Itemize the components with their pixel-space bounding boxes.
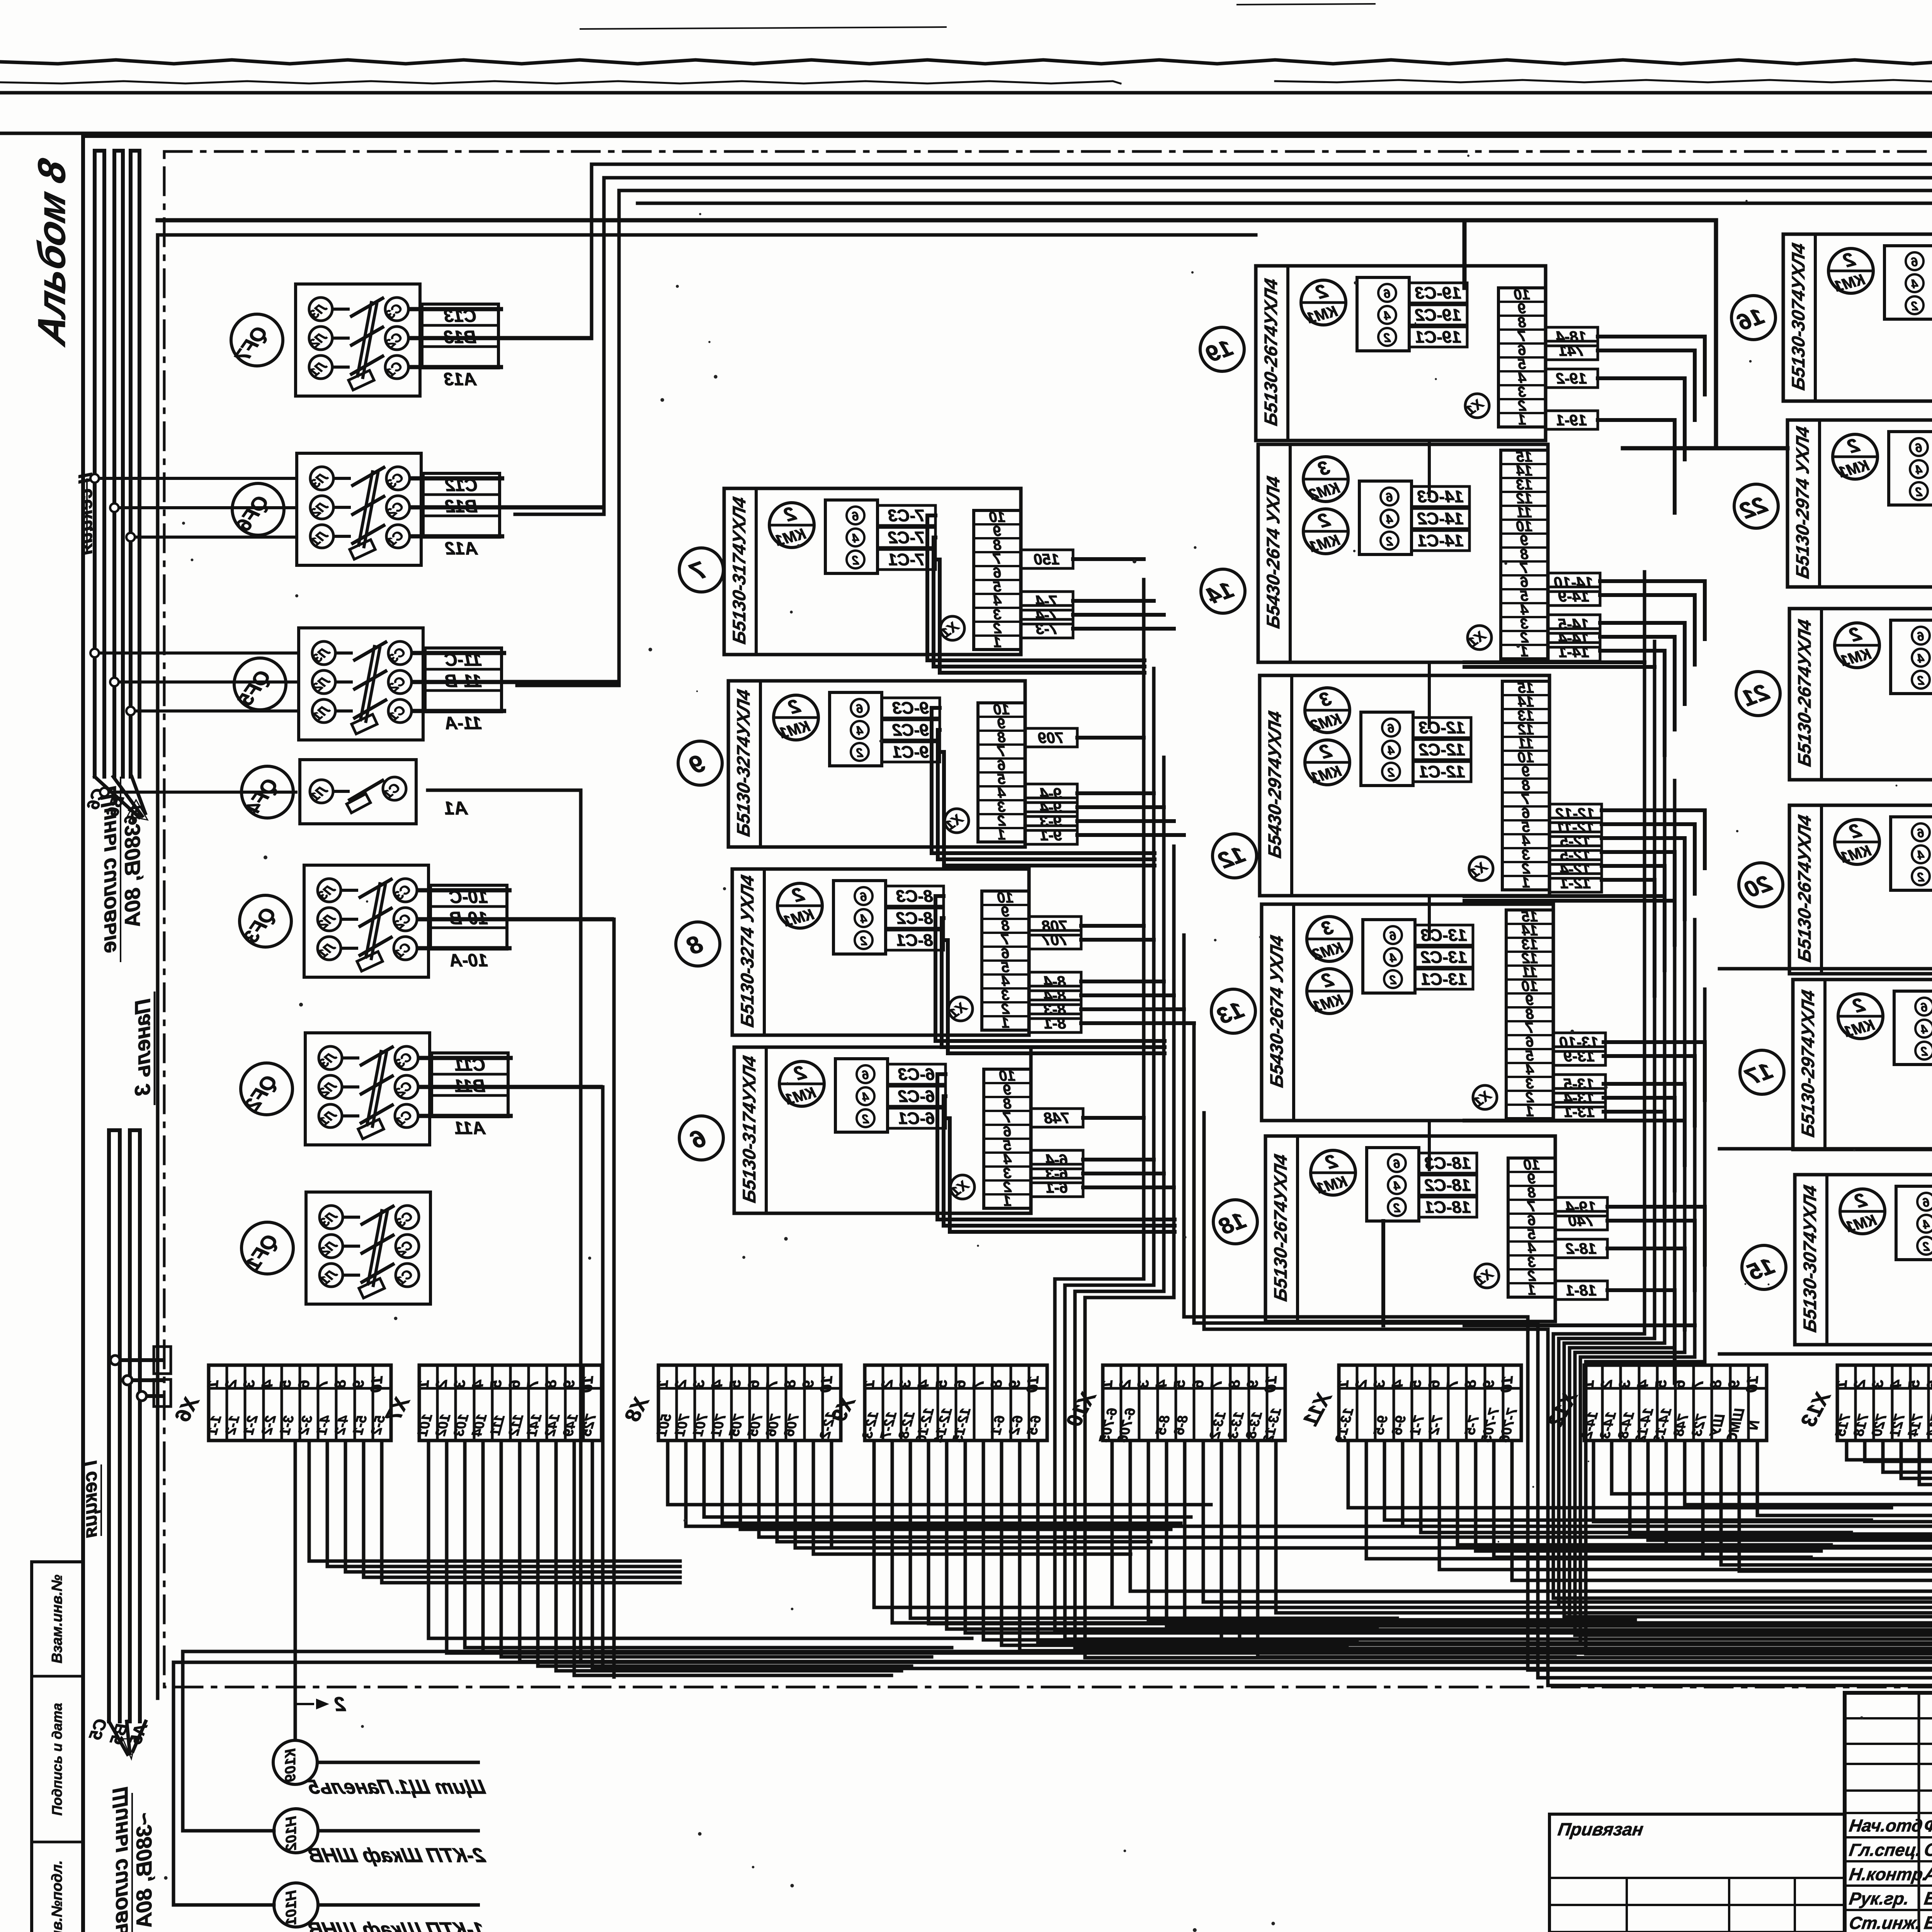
svg-text:6: 6 — [1917, 629, 1924, 643]
svg-text:2: 2 — [1598, 1379, 1616, 1389]
position circle 14 — [1201, 569, 1245, 613]
svg-text:6: 6 — [1425, 1379, 1443, 1389]
label Шины силовые ~380В 80А (upper) — [96, 777, 145, 962]
svg-text:5: 5 — [1407, 1379, 1425, 1389]
svg-text:19-С3: 19-С3 — [1415, 284, 1461, 303]
svg-text:10-А: 10-А — [449, 950, 488, 970]
svg-text:4: 4 — [1393, 1179, 1401, 1193]
svg-text:9: 9 — [560, 1379, 578, 1389]
bundle B verticals (between middle and right columns) — [1553, 572, 1932, 1654]
svg-text:4: 4 — [1389, 1379, 1406, 1389]
svg-text:Шины силовые: Шины силовые — [108, 1787, 132, 1932]
svg-text:13-9: 13-9 — [1563, 1048, 1595, 1065]
wire QF2 output down — [522, 1087, 603, 1669]
terminal strip Х11 — [1299, 1365, 1521, 1444]
svg-text:12-С2: 12-С2 — [1419, 740, 1465, 759]
wire under block 12 — [1464, 896, 1675, 901]
svg-text:Б5130-3074УХЛ4: Б5130-3074УХЛ4 — [1788, 241, 1809, 392]
svg-text:4: 4 — [852, 531, 859, 545]
wire QF5 feed to top loop — [517, 190, 1932, 685]
svg-text:4: 4 — [860, 912, 867, 926]
svg-text:9: 9 — [1006, 1379, 1024, 1389]
svg-text:Б5130-2974 УХЛ4: Б5130-2974 УХЛ4 — [1793, 425, 1813, 580]
svg-text:1: 1 — [1098, 1379, 1116, 1389]
terminal strip Х6 — [171, 1365, 391, 1440]
svg-text:10: 10 — [1498, 1375, 1516, 1393]
svg-text:Инв.№подл.: Инв.№подл. — [49, 1860, 65, 1932]
svg-text:8-С1: 8-С1 — [896, 931, 933, 950]
svg-text:Рук.гр.: Рук.гр. — [1848, 1889, 1910, 1908]
svg-text:9: 9 — [799, 1379, 817, 1389]
scan noise top edge — [0, 4, 1932, 83]
svg-text:4: 4 — [1388, 743, 1395, 757]
svg-text:4: 4 — [862, 1090, 869, 1104]
svg-text:Шины силовые: Шины силовые — [96, 786, 121, 953]
svg-text:1: 1 — [204, 1379, 222, 1389]
svg-text:4: 4 — [1386, 512, 1393, 526]
svg-text:4: 4 — [1921, 1022, 1928, 1036]
svg-text:8: 8 — [1707, 1379, 1725, 1389]
svg-text:14-1: 14-1 — [1558, 644, 1589, 661]
position circle 8 — [676, 922, 720, 966]
contactor block 17 (Б5130-2974УХЛ4) — [1793, 980, 1932, 1150]
left margin table (Инв.№подл / Подпись и дата / Взам.инв.№) — [32, 1562, 83, 1932]
wire left vertical feed H101 — [173, 1662, 274, 1905]
svg-text:4: 4 — [1634, 1379, 1652, 1389]
svg-text:2: 2 — [1917, 870, 1925, 884]
svg-text:8-С2: 8-С2 — [896, 909, 933, 928]
svg-text:10: 10 — [1743, 1375, 1762, 1393]
wire under block 13 — [1464, 1119, 1685, 1122]
svg-text:19-С1: 19-С1 — [1415, 328, 1461, 347]
svg-text:18-С3: 18-С3 — [1425, 1154, 1471, 1173]
contactor block 13 (Б5430-2674 УХЛ4) — [1262, 904, 1605, 1121]
svg-text:7-С2: 7-С2 — [888, 528, 925, 547]
label I секция — [79, 1460, 101, 1538]
svg-text:2: 2 — [1921, 1044, 1928, 1058]
svg-text:4: 4 — [1887, 1379, 1905, 1389]
svg-text:6-1: 6-1 — [1046, 1179, 1068, 1196]
svg-text:6: 6 — [852, 509, 859, 523]
svg-text:8: 8 — [332, 1379, 349, 1389]
svg-text:18-С1: 18-С1 — [1425, 1198, 1471, 1217]
svg-text:19-С2: 19-С2 — [1415, 306, 1461, 325]
svg-text:Взам.инв.№: Взам.инв.№ — [49, 1575, 65, 1663]
svg-text:19-2: 19-2 — [1556, 370, 1587, 387]
wire to K18-1 — [1719, 1352, 1932, 1356]
svg-text:18-С2: 18-С2 — [1425, 1176, 1471, 1195]
svg-text:8: 8 — [1226, 1379, 1243, 1389]
svg-text:5: 5 — [933, 1379, 951, 1389]
svg-text:6: 6 — [860, 890, 867, 904]
svg-text:9-С2: 9-С2 — [892, 721, 929, 740]
svg-text:6: 6 — [1917, 826, 1924, 840]
svg-text:14-С3: 14-С3 — [1417, 487, 1464, 506]
terminal strip Х9 — [827, 1365, 1047, 1444]
svg-text:1: 1 — [1833, 1379, 1850, 1389]
svg-text:Б5430-2674 УХЛ4: Б5430-2674 УХЛ4 — [1267, 934, 1287, 1089]
svg-text:2: 2 — [878, 1379, 896, 1389]
contactor block 7 (Б5130-3174УХЛ4) — [724, 488, 1073, 655]
svg-text:10: 10 — [1024, 1375, 1042, 1393]
wire left vertical feed H102 — [183, 1651, 274, 1831]
svg-text:Ст.инж.: Ст.инж. — [1848, 1913, 1922, 1932]
label Панель 3 — [130, 992, 155, 1105]
svg-text:1: 1 — [1527, 1282, 1536, 1298]
position circle 17 — [1740, 1050, 1784, 1094]
svg-text:2: 2 — [856, 746, 864, 760]
breaker QF4 (single pole) — [241, 760, 468, 824]
svg-text:9-С3: 9-С3 — [892, 699, 929, 718]
position circle 20 — [1739, 863, 1783, 907]
svg-text:14-С1: 14-С1 — [1417, 531, 1464, 550]
svg-text:8: 8 — [1462, 1379, 1480, 1389]
contactor block 18 (Б5130-2674УХЛ4) — [1265, 1136, 1607, 1321]
svg-text:4: 4 — [1911, 277, 1918, 291]
svg-text:7-С1: 7-С1 — [888, 550, 925, 569]
wire left vertical to lamp H102 — [156, 235, 160, 1698]
position circle 21 — [1736, 672, 1780, 716]
svg-text:Б5130-2674УХЛ4: Б5130-2674УХЛ4 — [1261, 277, 1281, 427]
contactor block 14 (Б5430-2674 УХЛ4) — [1258, 444, 1600, 662]
svg-text:6: 6 — [1923, 1196, 1930, 1209]
svg-text:6: 6 — [1384, 287, 1391, 301]
position circle 9 — [678, 741, 722, 785]
svg-text:6: 6 — [856, 702, 863, 716]
contactor block 6 (Б5130-3174УХЛ4) — [734, 1047, 1083, 1213]
svg-text:13-1: 13-1 — [1564, 1104, 1595, 1121]
svg-text:2: 2 — [860, 934, 867, 948]
svg-text:9: 9 — [1480, 1379, 1498, 1389]
terminal strip Х13 — [1797, 1365, 1932, 1440]
svg-text:3: 3 — [1371, 1379, 1388, 1389]
svg-text:748: 748 — [1044, 1110, 1070, 1127]
svg-text:~380В, 80А: ~380В, 80А — [120, 811, 145, 927]
terminal strip Х7 — [381, 1365, 602, 1440]
svg-text:4: 4 — [259, 1379, 276, 1389]
svg-text:12-С3: 12-С3 — [1419, 718, 1465, 737]
svg-text:Б5130-3074УХЛ4: Б5130-3074УХЛ4 — [1800, 1184, 1820, 1334]
contactor block 20 (Б5130-2674УХЛ4) — [1789, 805, 1932, 974]
svg-text:2: 2 — [1116, 1379, 1134, 1389]
svg-text:9: 9 — [1725, 1379, 1743, 1389]
svg-text:Б5430-2674 УХЛ4: Б5430-2674 УХЛ4 — [1263, 474, 1284, 630]
svg-text:Н.контр.: Н.контр. — [1848, 1864, 1929, 1884]
svg-text:8: 8 — [781, 1379, 799, 1389]
svg-text:2: 2 — [1386, 534, 1393, 548]
svg-text:18-1: 18-1 — [1566, 1282, 1597, 1299]
svg-text:5: 5 — [487, 1379, 505, 1389]
svg-text:2: 2 — [334, 1693, 346, 1716]
terminal strip Х8 — [621, 1365, 841, 1440]
svg-text:3: 3 — [240, 1379, 258, 1389]
svg-text:4: 4 — [915, 1379, 932, 1389]
svg-text:4: 4 — [469, 1379, 487, 1389]
position circle 13 — [1211, 989, 1255, 1033]
svg-text:Привязан: Привязан — [1557, 1819, 1645, 1839]
svg-text:741: 741 — [1559, 342, 1585, 359]
svg-text:Б5130-2674УХЛ4: Б5130-2674УХЛ4 — [1794, 618, 1815, 768]
svg-text:3: 3 — [1869, 1379, 1887, 1389]
svg-text:Б5130-2974УХЛ4: Б5130-2974УХЛ4 — [1798, 988, 1818, 1139]
svg-text:5: 5 — [1905, 1379, 1923, 1389]
svg-text:Б5130-3274 УХЛ4: Б5130-3274 УХЛ4 — [737, 873, 758, 1029]
side label wires middle column — [1598, 337, 1705, 1383]
svg-text:709: 709 — [1038, 730, 1064, 747]
svg-text:12-С1: 12-С1 — [1419, 762, 1465, 781]
svg-text:6: 6 — [1911, 255, 1918, 269]
svg-text:2: 2 — [1915, 485, 1923, 499]
svg-text:Б5130-2674УХЛ4: Б5130-2674УХЛ4 — [1270, 1153, 1291, 1303]
svg-text:2: 2 — [1911, 299, 1918, 313]
svg-text:4: 4 — [1915, 463, 1923, 477]
svg-text:9: 9 — [350, 1379, 367, 1389]
contactor block 21 (Б5130-2674УХЛ4) — [1789, 609, 1932, 780]
wire QF3 output down — [521, 919, 614, 1677]
svg-text:6-С2: 6-С2 — [898, 1087, 935, 1106]
bus bars section II (Шины силовые ~380В, 80А) — [95, 151, 139, 777]
svg-text:Б5130-3174УХЛ4: Б5130-3174УХЛ4 — [729, 495, 750, 646]
svg-text:3: 3 — [690, 1379, 708, 1389]
svg-text:6: 6 — [1386, 490, 1393, 504]
svg-text:6: 6 — [1915, 441, 1922, 455]
svg-text:1: 1 — [654, 1379, 672, 1389]
svg-text:1: 1 — [1526, 1104, 1534, 1120]
wire QF4 output down — [428, 790, 581, 1662]
svg-text:1: 1 — [860, 1379, 878, 1389]
position circle 15 — [1742, 1245, 1786, 1289]
position circle 12 — [1213, 834, 1257, 878]
pin feed verticals middle column — [1428, 440, 1431, 1170]
svg-text:6: 6 — [745, 1379, 763, 1389]
wire top feed into block 19 — [158, 220, 1716, 448]
svg-text:11-А: 11-А — [445, 713, 482, 733]
contactor block 15 (Б5130-3074УХЛ4) — [1795, 1175, 1932, 1345]
svg-text:4: 4 — [1153, 1379, 1170, 1389]
wire block19 to block16 — [1623, 446, 1787, 451]
terminal strip Х12 — [1544, 1365, 1767, 1444]
svg-text:Нач.отд: Нач.отд — [1848, 1816, 1924, 1835]
bus taps to breakers — [90, 474, 298, 1401]
svg-text:9: 9 — [1244, 1379, 1262, 1389]
svg-text:Щит Щ1.Панель5: Щит Щ1.Панель5 — [305, 1776, 487, 1798]
svg-text:А1: А1 — [444, 798, 468, 819]
svg-text:Б5130-3174УХЛ4: Б5130-3174УХЛ4 — [739, 1054, 760, 1204]
svg-text:4: 4 — [1917, 651, 1925, 665]
svg-text:6: 6 — [1921, 1000, 1928, 1014]
position circle 16 — [1731, 296, 1776, 340]
svg-text:Б5130-2674УХЛ4: Б5130-2674УХЛ4 — [1794, 813, 1815, 964]
svg-text:2: 2 — [1384, 331, 1391, 345]
svg-text:1: 1 — [1001, 1015, 1009, 1031]
svg-text:Б5430-2974УХЛ4: Б5430-2974УХЛ4 — [1265, 709, 1285, 860]
svg-text:6: 6 — [1393, 1157, 1400, 1171]
svg-text:2: 2 — [1923, 1240, 1930, 1253]
svg-text:2: 2 — [1352, 1379, 1370, 1389]
breaker QF3 — [240, 865, 614, 977]
pin bundle wires left column — [927, 515, 1145, 673]
position circle 19 — [1200, 327, 1244, 371]
svg-text:1: 1 — [1003, 1193, 1011, 1209]
wire to K15-1 — [1719, 1147, 1932, 1151]
svg-text:5: 5 — [1171, 1379, 1189, 1389]
svg-text:6: 6 — [1389, 929, 1396, 943]
svg-text:13-С2: 13-С2 — [1421, 948, 1467, 967]
wire QF6 feed to top loop — [515, 178, 1932, 514]
header strip line — [0, 132, 1932, 135]
svg-text:8: 8 — [988, 1379, 1005, 1389]
svg-text:Альбом 8: Альбом 8 — [30, 155, 73, 350]
svg-text:К109: К109 — [282, 1748, 299, 1782]
breaker QF6 — [232, 453, 604, 565]
svg-text:13-С1: 13-С1 — [1421, 970, 1467, 989]
wire top loop 4 — [638, 202, 1932, 205]
svg-text:2-КТП Шкаф ШНВ: 2-КТП Шкаф ШНВ — [306, 1844, 487, 1867]
svg-text:Панель 3: Панель 3 — [130, 998, 155, 1096]
svg-text:Н101: Н101 — [283, 1890, 299, 1925]
svg-text:Подпись и дата: Подпись и дата — [49, 1703, 65, 1816]
svg-text:3: 3 — [1134, 1379, 1152, 1389]
breaker QF5 — [234, 628, 619, 740]
svg-text:1: 1 — [1334, 1379, 1352, 1389]
cabinet Щ1 boundary (dash-dot) — [164, 151, 1932, 1687]
svg-text:1: 1 — [1518, 412, 1526, 428]
contactor block 22 (Б5130-2974УХЛ4) — [1787, 420, 1932, 587]
position circle 22 — [1734, 484, 1778, 528]
svg-text:II секция: II секция — [75, 473, 96, 556]
svg-text:А12: А12 — [445, 538, 478, 558]
svg-text:4: 4 — [856, 724, 864, 738]
svg-text:10: 10 — [817, 1375, 836, 1393]
svg-text:1: 1 — [1520, 644, 1528, 660]
svg-text:2: 2 — [1389, 973, 1397, 987]
Альбом 8 handwritten label — [30, 155, 73, 350]
svg-text:I секция: I секция — [79, 1460, 101, 1538]
svg-text:7-3: 7-3 — [1036, 621, 1058, 638]
wire QF7 feed to top loop — [514, 164, 1932, 338]
svg-text:6: 6 — [862, 1068, 869, 1082]
label Шины силовые ~380В 80А (lower) — [108, 1787, 156, 1932]
contactor block 16 (Б5130-3074УХЛ4) — [1783, 234, 1932, 401]
bundle A verticals (between left and middle columns) — [1055, 580, 1932, 1685]
breaker QF7 — [231, 284, 592, 396]
breaker QF1 — [241, 1192, 430, 1304]
svg-text:2: 2 — [1851, 1379, 1869, 1389]
svg-text:3: 3 — [1616, 1379, 1634, 1389]
svg-text:Гл.спец.: Гл.спец. — [1848, 1840, 1923, 1860]
svg-text:4: 4 — [1389, 951, 1397, 965]
contactor block 8 (Б5130-3274УХЛ4) — [732, 869, 1081, 1035]
svg-text:8-С3: 8-С3 — [896, 887, 933, 906]
svg-text:2: 2 — [433, 1379, 451, 1389]
contactor block 19 (Б5130-2674УХЛ4) — [1256, 266, 1598, 440]
svg-text:2: 2 — [1388, 765, 1395, 779]
svg-text:1: 1 — [1580, 1379, 1597, 1389]
svg-text:10: 10 — [1262, 1375, 1280, 1393]
connector circle H101 (1-КТП Шкаф ШНВ) — [274, 1883, 487, 1932]
svg-text:4: 4 — [1923, 1218, 1930, 1231]
svg-text:4: 4 — [1384, 309, 1391, 323]
small connector boxes on enclosure left edge — [154, 1347, 171, 1406]
svg-text:9-С1: 9-С1 — [892, 743, 929, 762]
svg-text:1-КТП Шкаф ШНВ: 1-КТП Шкаф ШНВ — [306, 1918, 487, 1932]
svg-text:1: 1 — [1522, 875, 1530, 891]
sheet top border line — [0, 91, 1932, 95]
svg-text:6-С3: 6-С3 — [898, 1065, 935, 1084]
svg-text:6: 6 — [295, 1379, 313, 1389]
svg-text:6-С1: 6-С1 — [898, 1109, 935, 1128]
svg-text:Б5130-3274УХЛ4: Б5130-3274УХЛ4 — [733, 688, 754, 838]
svg-text:4: 4 — [1917, 848, 1925, 862]
position circle 18 — [1213, 1200, 1257, 1244]
annex table Привязан — [1549, 1814, 1845, 1932]
svg-text:8-1: 8-1 — [1044, 1015, 1066, 1032]
svg-text:2: 2 — [1393, 1201, 1401, 1215]
svg-text:5: 5 — [1652, 1379, 1670, 1389]
wire under block 18 — [1383, 1221, 1695, 1325]
position circle 6 — [679, 1116, 723, 1160]
wire under block 14 — [1464, 662, 1655, 667]
svg-text:1: 1 — [993, 634, 1001, 651]
wire to K17-1 — [1719, 967, 1932, 971]
position circle 7 — [679, 548, 723, 592]
bus arrow С5 В5 А5 — [86, 1716, 151, 1759]
svg-text:1: 1 — [415, 1379, 432, 1389]
svg-text:707: 707 — [1041, 932, 1068, 949]
svg-text:5: 5 — [726, 1379, 744, 1389]
svg-text:6: 6 — [1388, 721, 1395, 735]
svg-text:14-С2: 14-С2 — [1417, 509, 1464, 528]
svg-text:10: 10 — [578, 1375, 597, 1393]
svg-text:3: 3 — [896, 1379, 914, 1389]
svg-text:740: 740 — [1568, 1213, 1594, 1230]
svg-text:~380В, 80А: ~380В, 80А — [132, 1812, 156, 1928]
breaker QF2 — [241, 1033, 603, 1145]
bus arrow С6 В6 А6 — [83, 777, 148, 828]
title block — [1845, 1693, 1932, 1932]
svg-text:150: 150 — [1034, 551, 1060, 568]
svg-text:Н102: Н102 — [283, 1816, 299, 1851]
svg-text:5: 5 — [277, 1379, 294, 1389]
svg-text:2: 2 — [852, 553, 859, 567]
svg-text:2: 2 — [672, 1379, 690, 1389]
svg-text:6: 6 — [506, 1379, 524, 1389]
svg-text:1: 1 — [997, 827, 1005, 843]
long bottom wires from left risers — [173, 1651, 1932, 1662]
svg-text:9-1: 9-1 — [1040, 827, 1062, 844]
svg-text:3: 3 — [451, 1379, 469, 1389]
terminal strip Х10 — [1062, 1365, 1285, 1444]
svg-text:12-1: 12-1 — [1560, 875, 1591, 892]
svg-text:2: 2 — [1917, 673, 1925, 687]
svg-text:2: 2 — [862, 1112, 869, 1126]
contactor block 12 (Б5430-2974УХЛ4) — [1260, 675, 1602, 896]
wire left riser y608 — [158, 233, 1256, 237]
svg-text:6: 6 — [1189, 1379, 1207, 1389]
contactor block 9 (Б5130-3274УХЛ4) — [728, 681, 1077, 847]
svg-text:2: 2 — [222, 1379, 240, 1389]
connector circle H102 (2-КТП Шкаф ШНВ) — [274, 1809, 487, 1867]
label II секция — [75, 473, 96, 556]
bus bars section I (lower) — [109, 1130, 140, 1721]
bottom wiring channels from terminal strips — [309, 1440, 1932, 1675]
svg-text:А11: А11 — [454, 1118, 486, 1138]
svg-text:7-С3: 7-С3 — [888, 506, 925, 525]
svg-text:19-1: 19-1 — [1556, 412, 1587, 429]
svg-text:8: 8 — [542, 1379, 560, 1389]
svg-text:10: 10 — [367, 1375, 386, 1393]
svg-text:4: 4 — [708, 1379, 726, 1389]
